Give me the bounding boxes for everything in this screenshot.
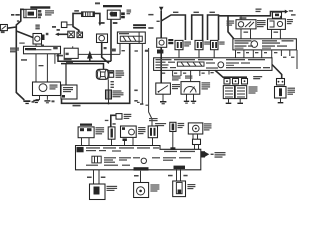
door switch 3	[211, 40, 219, 49]
capacitor / suppressor hatched box	[106, 90, 112, 99]
text right of N2	[288, 88, 296, 89]
far right drop	[296, 50, 298, 69]
wires below U into connector	[192, 134, 194, 139]
black header bar 2	[103, 5, 122, 7]
rail label	[73, 105, 81, 107]
stub bus to H	[279, 16, 281, 19]
wire to diagnostic box	[65, 64, 67, 85]
header bar above relay O	[80, 124, 92, 126]
right sensor feed diagonal	[272, 65, 282, 79]
heater element box 1	[223, 86, 234, 99]
heater element box 2	[235, 86, 247, 99]
ground symbol W2	[33, 100, 39, 102]
strip right connector and arrow	[201, 151, 205, 157]
text right of capacitor	[113, 90, 122, 91]
relay box O	[78, 127, 94, 138]
ground wire from box J left	[36, 96, 40, 100]
wire relay to junction	[67, 24, 73, 26]
label 15 on trunk3	[112, 49, 116, 52]
ground below N2	[280, 98, 282, 102]
text right of Y	[187, 184, 195, 185]
fuse wire 4	[149, 48, 152, 126]
kickdown box J	[33, 82, 61, 96]
ignition coil cylinder	[96, 69, 109, 79]
ignition starter switch box D	[97, 34, 108, 43]
label on bus corner	[256, 9, 262, 10]
text right of box F	[168, 39, 173, 41]
fuse stubs	[226, 77, 228, 78]
text above box S	[149, 118, 158, 119]
wire labels 15	[122, 50, 125, 51]
fuse box E header text	[133, 24, 146, 26]
header bar label	[30, 6, 50, 8]
arrow to other page	[59, 33, 68, 35]
circle K in box J	[39, 84, 47, 92]
wires below Q with connector blob	[123, 138, 127, 141]
inline connector on feed	[273, 12, 282, 18]
text right of coil	[116, 70, 124, 71]
bus wire row B to coil	[61, 64, 104, 70]
antenna motor wires	[176, 169, 178, 181]
wire label tick	[17, 20, 19, 22]
circle in box B	[35, 36, 40, 41]
trunk3 from box C to coil	[110, 19, 112, 61]
label under box F	[157, 50, 163, 54]
text between G and H	[257, 20, 266, 21]
labels after arrow	[289, 10, 293, 11]
wires G H down to strip I	[240, 29, 242, 39]
text right of H	[287, 19, 293, 20]
junction dot	[107, 102, 109, 104]
text block mid	[35, 25, 39, 26]
wire down from plug through fuse P	[111, 115, 116, 127]
diagnostic connector box	[61, 85, 77, 99]
wiper switch box G	[236, 20, 256, 29]
trunk ground bend	[16, 93, 24, 101]
rear defogger feed diagonal	[215, 70, 247, 77]
fuel pump relay box Z1	[24, 46, 61, 54]
inline fuse N1	[277, 79, 285, 86]
label tick	[41, 45, 44, 47]
text left of resistor	[74, 10, 79, 12]
grounds below heater	[228, 99, 230, 103]
arrow inside left box	[2, 26, 7, 30]
connector strip 2	[154, 58, 272, 71]
big arrow up (power feed)	[87, 51, 93, 59]
text right of plug	[124, 114, 132, 115]
wire labels	[113, 123, 116, 125]
fuse box E	[117, 32, 145, 43]
arrow right	[285, 10, 288, 14]
wire capacitor to ground line	[108, 99, 110, 103]
internal coil symbol	[111, 12, 118, 17]
black bar right portion	[174, 166, 186, 169]
fuse element box F on trunk	[157, 38, 167, 47]
seat belt switch box L	[156, 83, 171, 94]
switch stubs to strip2	[178, 50, 180, 58]
circle in box D	[99, 35, 105, 41]
fuse wire 3	[141, 43, 143, 104]
text mid labels	[253, 76, 262, 77]
wire below box S	[152, 138, 154, 146]
junction connector box right of Z1	[64, 48, 78, 58]
long ground rail wire	[62, 43, 130, 103]
text right of X	[150, 184, 159, 185]
terminal labels right of relay A	[38, 10, 41, 13]
diagonal wire trunk to ignition switch box B	[16, 31, 33, 38]
wire from relay A to trunk	[16, 9, 24, 93]
text right of T	[178, 123, 185, 124]
battery box W	[90, 184, 106, 200]
ground wire from box J right	[46, 96, 48, 100]
text above right of box L	[172, 76, 181, 77]
connector box row 2	[77, 32, 83, 38]
text right of box M	[202, 82, 211, 83]
terminal pins right of box C	[121, 12, 125, 15]
text right	[52, 26, 56, 28]
connector strip I	[233, 39, 297, 50]
arrow stem	[89, 59, 91, 62]
feed wire from fuse to junction box	[78, 53, 120, 55]
ground symbol W1	[23, 100, 30, 102]
series resistor R	[82, 12, 95, 17]
warning gauge box M	[181, 82, 200, 95]
label left of trunk3	[101, 22, 105, 24]
relay K box A	[24, 9, 37, 17]
antenna symbol	[159, 7, 164, 11]
relay Z1 internal bar	[25, 48, 36, 50]
text above resistor	[95, 2, 100, 4]
black bar on strip bottom	[134, 167, 149, 170]
wires below Z1 to box J	[35, 54, 37, 82]
labels below strip I	[237, 52, 240, 53]
text right of U	[204, 123, 212, 124]
dash labels	[19, 43, 24, 44]
aux relay small box	[61, 22, 67, 28]
fuse box P	[108, 127, 115, 139]
antenna motor box Y	[173, 181, 186, 197]
wires below O	[81, 138, 83, 146]
trunk2	[160, 11, 162, 39]
plug housing symbol	[116, 114, 122, 120]
label text left top	[11, 14, 14, 16]
bus wire row A	[58, 54, 111, 62]
wire below T	[172, 132, 174, 150]
wire left box to trunk	[7, 27, 16, 28]
text above box M	[185, 76, 192, 77]
wiper motor box H	[268, 19, 286, 30]
relay A internal contact	[28, 12, 34, 16]
wire into box M	[190, 70, 192, 81]
resistor left wire and drop	[73, 13, 82, 32]
connector to other circuit (left box)	[0, 25, 7, 31]
grounds below box M	[186, 94, 188, 100]
ground symbol W3	[44, 100, 50, 101]
overvoltage relay box C	[107, 10, 120, 19]
right feed bus	[219, 12, 286, 16]
arrowhead down	[98, 23, 101, 27]
battery feed wires below strip	[93, 170, 95, 184]
fuse box row	[224, 79, 230, 85]
bus corner down to strip I	[228, 16, 234, 39]
text right of W	[107, 186, 118, 187]
wire labels	[111, 81, 114, 82]
wires below strip 2 with labels	[172, 70, 174, 76]
coil bottom wire	[107, 79, 109, 90]
switch box S	[148, 126, 157, 138]
label text left of Z1	[10, 48, 19, 49]
label right of trunk3	[113, 22, 118, 24]
text right of box L	[172, 84, 180, 85]
switch box B	[33, 34, 42, 45]
horn box U	[188, 123, 203, 134]
trunk2 tick labels	[148, 14, 153, 16]
door switch 1	[175, 40, 183, 49]
fuse strip inside	[120, 36, 142, 41]
door switch 2	[195, 40, 203, 49]
horn box X	[134, 183, 149, 198]
text right of O	[96, 127, 105, 128]
ground below box L	[162, 94, 164, 101]
wires below strip I	[235, 50, 237, 58]
main harness connector strip V	[76, 146, 201, 170]
resistor box T	[170, 122, 176, 131]
motor box Q	[121, 126, 137, 137]
text in box J	[50, 85, 58, 86]
relay A internal line	[25, 9, 27, 17]
bulb box N2	[275, 87, 287, 99]
stub bus to G	[240, 16, 242, 20]
text right of Q	[138, 127, 145, 128]
fuse wire 1	[119, 43, 121, 54]
staircase wire chain	[161, 15, 185, 40]
terminal block right of box B	[42, 35, 45, 41]
box D wire merging to coil feed	[102, 43, 109, 64]
wire to horn X	[140, 171, 142, 183]
text right of heater	[249, 86, 258, 87]
bus labels	[64, 59, 72, 60]
connector box row 1	[68, 31, 75, 37]
resistor right wire with down arrow	[94, 13, 100, 22]
label under left box	[1, 31, 5, 33]
text right of bar2	[127, 10, 132, 11]
stub box B to relay box Z1	[35, 44, 37, 46]
